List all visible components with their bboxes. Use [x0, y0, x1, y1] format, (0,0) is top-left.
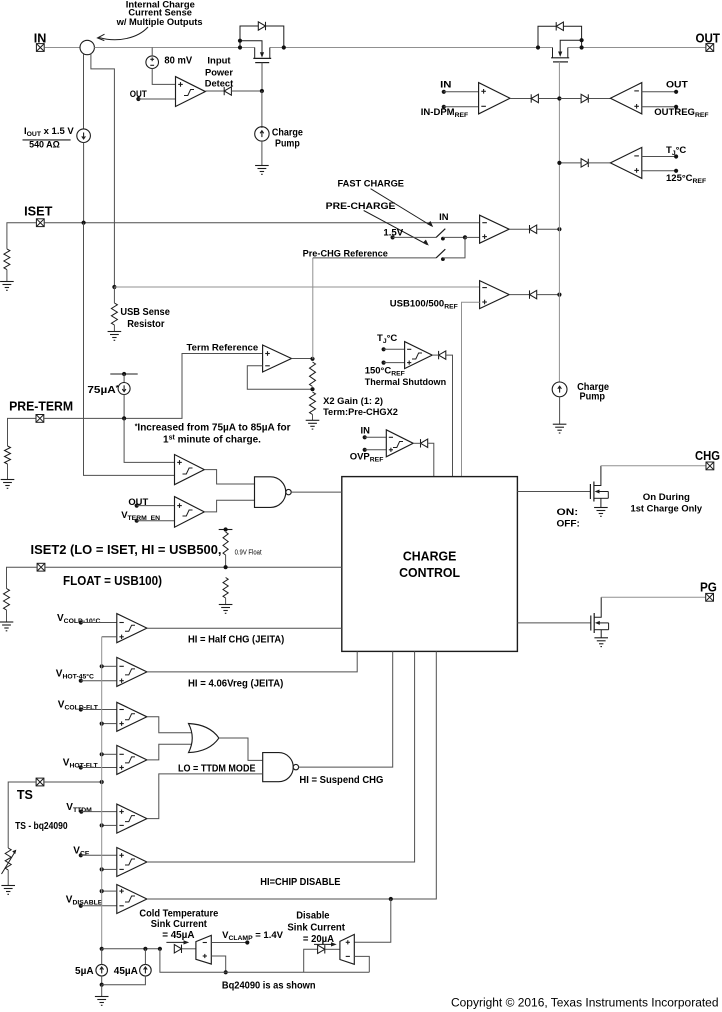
diode D12: [174, 945, 181, 953]
wire left rail to U10 minus: [84, 223, 175, 476]
wire Q4 drain to PG pin: [601, 596, 705, 598]
wire VTTDM to U16 plus: [81, 811, 117, 813]
svg-text:5µA: 5µA: [75, 966, 94, 977]
wire D8 to U7: [588, 162, 610, 164]
gate O1 OR: [189, 724, 219, 753]
svg-text:CHG: CHG: [695, 449, 720, 463]
diode D3: [224, 87, 231, 95]
node dot VCLAMP: [245, 940, 249, 944]
ground Q4: [594, 638, 608, 647]
wire OUT to U1 minus: [138, 98, 175, 100]
supply bar 0.9V: [219, 529, 233, 531]
ground PRE-TERM: [1, 480, 15, 489]
ground Q3: [594, 508, 608, 517]
wire U4 out: [509, 294, 529, 296]
svg-text:HI = Half CHG (JEITA): HI = Half CHG (JEITA): [188, 635, 284, 646]
svg-text:TS: TS: [17, 788, 33, 802]
wire U17 out riser to box: [147, 651, 415, 862]
comparator U4: [480, 281, 510, 309]
source 45uA: [140, 964, 152, 976]
wire VHOT45 to U13 plus: [81, 680, 117, 682]
wire TJ to U8: [384, 348, 405, 350]
svg-text:Power: Power: [205, 67, 233, 78]
wire D9 riser to box: [446, 355, 453, 477]
svg-text:On During: On During: [643, 491, 690, 502]
switch pre-charge contact: [441, 257, 445, 261]
junction dot divider mid: [310, 387, 314, 391]
ground charge pump right: [553, 424, 567, 433]
wire PRE-TERM node to U10 plus: [124, 418, 174, 462]
junction dot TS U13: [100, 664, 104, 668]
junction dot PRE-TERM/75uA: [122, 416, 126, 420]
transistor Q2 drain leg: [567, 48, 569, 58]
wire 5uA bottom: [101, 976, 103, 985]
svg-text:Term Reference: Term Reference: [187, 341, 259, 352]
wire OUT to U11 plus: [137, 505, 175, 507]
wire Q2 to OUT pin: [568, 47, 706, 49]
node dot INDPM wire: [442, 105, 446, 109]
svg-text:Charge: Charge: [272, 127, 303, 138]
resistor X2 bottom: [310, 392, 316, 415]
wire D5 to bus: [537, 294, 560, 296]
wire TS bus to U12 plus: [102, 636, 117, 638]
transistor Q1 channel: [253, 57, 271, 59]
diode D10: [421, 439, 428, 447]
wire USB sense vertical: [113, 287, 115, 303]
junction dot TS wire: [100, 780, 104, 784]
svg-text:FAST CHARGE: FAST CHARGE: [338, 179, 405, 189]
junction dot gnd node: [100, 983, 104, 987]
svg-text:PRE-TERM: PRE-TERM: [9, 400, 73, 414]
wire PRE-TERM pin to resistor: [8, 418, 36, 446]
wire D7 to U6: [588, 98, 610, 100]
node dot 125C wire: [674, 169, 678, 173]
comparator U16 VTTDM: [117, 804, 147, 833]
op-amp U2 term reference: [263, 345, 292, 372]
svg-text:*Increased from 75µA to 85µA f: *Increased from 75µA to 85µA for: [135, 423, 291, 434]
wire N1 out to box: [291, 491, 342, 493]
svg-text:OFF:: OFF:: [557, 517, 580, 528]
wire supply bar to 75uA: [123, 374, 125, 383]
node dot 1.5V: [391, 235, 395, 239]
wire VTERMEN to U11 minus: [137, 520, 175, 522]
svg-text:w/ Multiple Outputs: w/ Multiple Outputs: [116, 17, 203, 27]
comparator U9 OVP: [386, 430, 413, 457]
wire U20 plus loop: [211, 956, 225, 972]
junction dot USB sense node: [112, 285, 116, 289]
ground ISET2: [0, 622, 13, 631]
wire VCOLD10 to U12: [81, 622, 117, 624]
wire U9 out to D10: [413, 442, 420, 444]
wire IN to U9: [365, 436, 387, 438]
diode D7: [581, 94, 588, 102]
node dot TJ thermal: [382, 347, 386, 351]
wire USB100/500REF riser: [462, 302, 480, 476]
wire VCE to U17 plus: [81, 854, 117, 856]
comparator U13 VHOT-45C: [117, 657, 147, 686]
svg-text:1st minute of charge.: 1st minute of charge.: [163, 435, 261, 446]
wire TS bus vertical: [101, 637, 103, 949]
resistor 0.9V top: [223, 532, 228, 555]
wire U12 out to box: [147, 627, 342, 629]
wire bias node rail: [102, 948, 160, 950]
wire divider to ground: [312, 415, 314, 421]
svg-text:IN: IN: [361, 425, 371, 436]
transistor Q1 body tap with arrow: [240, 41, 262, 53]
comparator U14 VCOLD-FLT: [117, 702, 147, 731]
wire pre-chg reference riser: [312, 258, 314, 359]
wire D12 to U20: [182, 948, 196, 950]
svg-text:HI = Suspend CHG: HI = Suspend CHG: [299, 775, 383, 786]
svg-text:TS - bq24090: TS - bq24090: [15, 821, 68, 832]
wire IOUT source to ISET rail: [83, 143, 85, 223]
transistor Q1 source leg: [254, 48, 256, 59]
junction dot Q1 tap: [238, 39, 242, 43]
wire TS pin to bus: [44, 781, 101, 783]
junction dot 0.9V: [224, 565, 228, 569]
svg-text:Sink Current: Sink Current: [287, 923, 345, 934]
wire U11 out to N1: [204, 500, 254, 512]
wire U15 out to OR: [147, 744, 194, 760]
source V 80mV: [146, 56, 159, 69]
diode D2 bypass loop: [538, 26, 582, 47]
wire U14 out to OR: [147, 717, 194, 733]
svg-text:1st Charge Only: 1st Charge Only: [631, 502, 703, 513]
junction dot bus usb: [557, 293, 561, 297]
node dot OUT U11: [135, 504, 139, 508]
wire 0.9V to ground: [225, 598, 227, 605]
wire pre-chg switch up to plus node: [443, 237, 465, 258]
wire TS bus to U17 minus: [102, 868, 117, 870]
svg-text:X2 Gain (1: 2): X2 Gain (1: 2): [323, 395, 383, 406]
wire box to Q4 gate: [517, 622, 590, 624]
wire TS bus to U14 plus: [102, 723, 117, 725]
wire U3 out: [509, 228, 529, 230]
svg-text:HI=CHIP DISABLE: HI=CHIP DISABLE: [260, 877, 340, 888]
comparator U11 term enable: [175, 497, 205, 528]
svg-text:80 mV: 80 mV: [164, 55, 192, 66]
diode D6: [531, 94, 538, 102]
junction dot Q1 right rail: [282, 45, 286, 49]
wire D10 riser to box: [428, 443, 434, 476]
arrow pre charge: [364, 211, 427, 245]
pin PRE-TERM: [36, 415, 44, 423]
junction dot bus tj: [557, 161, 561, 165]
wire sense node to USB-sense vertical: [91, 53, 115, 287]
svg-text:ON:: ON:: [557, 506, 579, 517]
svg-text:Copyright © 2016, Texas Instru: Copyright © 2016, Texas Instruments Inco…: [451, 996, 719, 1010]
junction dot Q2 right rail: [580, 45, 584, 49]
wire U1 out to D3: [205, 90, 224, 92]
wire 5uA top: [101, 949, 103, 965]
ground ISET: [0, 282, 14, 291]
node dot IN ovp: [363, 435, 367, 439]
node dot VTERMEN: [135, 519, 139, 523]
wire 80mV to rail: [151, 48, 153, 56]
svg-text:TJ°C: TJ°C: [666, 145, 686, 157]
wire 0.9V mid: [225, 555, 227, 567]
wire bus to D8: [559, 162, 581, 164]
wire U18 out riser to box: [147, 651, 436, 899]
wire box to Q3 gate: [517, 491, 590, 493]
svg-text:ISET: ISET: [24, 205, 53, 219]
diode D2: [556, 22, 563, 30]
svg-text:Detect: Detect: [205, 78, 233, 89]
svg-text:Current Sense: Current Sense: [128, 8, 192, 18]
junction dot TS U18: [100, 889, 104, 893]
wire U6 top input: [642, 91, 676, 93]
svg-text:= 45µA: = 45µA: [162, 930, 194, 941]
leader arrow to current-sense node: [99, 27, 148, 40]
pin OUT: [706, 44, 714, 52]
wire VDISABLE to U18 minus: [81, 905, 117, 907]
wire N2 out riser to box: [299, 651, 393, 767]
node dot 150C: [382, 361, 386, 365]
node dot OUTREG wire: [674, 105, 678, 109]
svg-text:Disable: Disable: [296, 911, 330, 922]
svg-text:ISET2 (LO = ISET, HI = USB500,: ISET2 (LO = ISET, HI = USB500,: [31, 543, 222, 557]
node dot VTTDM: [79, 810, 83, 814]
wire 75uA to PRE-TERM node: [123, 395, 125, 419]
junction dot tap down: [158, 947, 162, 951]
wire U2 feedback: [247, 366, 312, 389]
wire VCOLDFLT to U14: [81, 709, 117, 711]
source charge pump right: [552, 382, 567, 397]
junction dot TS U17: [100, 867, 104, 871]
svg-text:Input: Input: [207, 54, 230, 65]
junction dot bus dpm: [557, 96, 561, 100]
svg-text:OUT: OUT: [666, 79, 688, 90]
ground USB sense: [108, 332, 122, 341]
op-amp U1 input power detect: [176, 77, 206, 107]
source 75uA: [118, 383, 130, 395]
transistor Q2 gate bar: [553, 61, 568, 63]
pin IN: [36, 44, 44, 52]
resistor 0.9V bottom: [223, 578, 228, 599]
svg-text:Term:Pre-CHGX2: Term:Pre-CHGX2: [323, 406, 398, 417]
gate N1 NAND: [255, 477, 286, 508]
transistor Q4 PG nmos: [590, 616, 592, 631]
svg-text:PG: PG: [700, 581, 717, 595]
wire gate node down to charge pump: [261, 91, 263, 128]
junction dot TS U14: [100, 722, 104, 726]
wire plus node to U3: [465, 236, 480, 238]
resistor R-PRETERM: [5, 446, 11, 464]
wire R-ISET to ground: [6, 270, 8, 282]
arrow 45uA current: [166, 941, 186, 943]
junction dot TS U16: [100, 823, 104, 827]
wire TS bus to U16 minus: [102, 824, 117, 826]
wire TS bus to U15 minus: [102, 753, 117, 755]
junction dot bus fast: [557, 227, 561, 231]
pin CHG: [706, 462, 714, 470]
transistor Q1 gate bar: [255, 62, 269, 64]
ground 0.9V: [219, 605, 233, 614]
wire Q3 drain to CHG pin: [601, 465, 706, 467]
comparator U8 thermal shutdown: [405, 342, 433, 369]
svg-text:75µA*: 75µA*: [87, 385, 119, 396]
svg-text:FLOAT = USB100): FLOAT = USB100): [63, 574, 162, 588]
node dot OUT wire: [136, 97, 140, 101]
wire PRE-TERM to term reference: [44, 354, 262, 419]
wire gate bus vertical: [558, 62, 560, 382]
node dot OUT wire U6: [674, 90, 678, 94]
junction dot ISET/IOUT: [82, 221, 86, 225]
wire D11 to U19: [325, 948, 340, 950]
switch fast charge blade: [436, 229, 445, 238]
wire 45uA bottom: [102, 976, 146, 985]
junction dot gate node: [260, 89, 264, 93]
junction dot disable branch: [389, 897, 393, 901]
wire 1.5V to switch: [393, 236, 437, 238]
wire OVPREF to U9: [365, 449, 387, 451]
comparator U5 IN-DPM: [479, 83, 510, 114]
comparator U6 OUTREG: [610, 83, 641, 114]
comparator U18 VDISABLE: [117, 885, 147, 914]
junction dot divider top: [310, 357, 314, 361]
svg-text:CHARGE: CHARGE: [403, 548, 457, 563]
svg-text:PRE-CHARGE: PRE-CHARGE: [326, 201, 396, 211]
resistor R-ISET: [4, 249, 10, 270]
ground X2 divider: [306, 420, 320, 429]
ground TS: [1, 886, 15, 895]
resistor X2 top: [310, 362, 316, 387]
ground bias: [95, 997, 109, 1006]
wire U8 out to D9: [432, 354, 438, 356]
node dot VHOT45: [79, 679, 83, 683]
wire 150C to U8: [384, 362, 405, 364]
arrow 20uA current: [314, 943, 334, 945]
svg-text:540 AΩ: 540 AΩ: [29, 138, 60, 149]
wire TS pin left to thermistor: [8, 782, 36, 848]
pin TS: [36, 778, 44, 786]
wire TS bus to U18 plus: [102, 890, 117, 892]
wire charge pump right to ground: [559, 397, 561, 424]
wire U13 out to box: [147, 651, 357, 672]
svg-text:Pump: Pump: [580, 392, 606, 403]
wire VHOTFLT to U15 plus: [81, 767, 117, 769]
node dot VCE: [79, 853, 83, 857]
junction dot Q2 tap: [580, 38, 584, 42]
wire sense node to Q1: [94, 47, 254, 49]
wire U7 top input: [642, 156, 676, 158]
svg-text:TJ°C: TJ°C: [377, 333, 397, 345]
svg-text:IN: IN: [440, 79, 452, 90]
comparator U19 disable clamp: [340, 934, 354, 964]
source 5uA: [96, 964, 108, 976]
wire bus to D7: [559, 98, 581, 100]
junction dot U20 plus: [224, 970, 228, 974]
junction dot TS U15: [100, 752, 104, 756]
wire USB100/500 net: [114, 286, 479, 288]
svg-text:IN: IN: [439, 211, 449, 222]
wire ISET2 pin left: [7, 567, 37, 588]
node dot VCOLDFLT: [79, 707, 83, 711]
gate N2 NAND: [263, 753, 294, 782]
svg-text:= 20µA: = 20µA: [303, 934, 334, 945]
block CHARGE CONTROL: [342, 477, 518, 652]
node dot TJ wire: [674, 154, 678, 158]
wire gnd stem: [101, 985, 103, 997]
junction dot U3 plus node: [463, 235, 467, 239]
wire IN to U5 plus: [444, 91, 479, 93]
wire U2 out to divider: [292, 358, 313, 360]
wire O1 out to N2: [219, 738, 263, 760]
node dot VHOTFLT: [79, 765, 83, 769]
wire D6 to bus: [538, 98, 559, 100]
wire ISET2 to box: [45, 566, 342, 568]
svg-text:HI = 4.06Vreg (JEITA): HI = 4.06Vreg (JEITA): [188, 679, 283, 690]
diode D1 bypass loop: [240, 26, 284, 48]
junction dot TS bottom: [100, 947, 104, 951]
wire INDPM to U5 minus: [444, 106, 479, 108]
wire bottom feedback rail: [160, 949, 369, 973]
diode D11: [318, 945, 325, 953]
switch pre-charge blade: [436, 249, 445, 258]
svg-text:Thermal Shutdown: Thermal Shutdown: [365, 376, 447, 387]
svg-text:45µA: 45µA: [114, 966, 138, 977]
wire ISET rail: [45, 222, 480, 224]
wire 45uA top: [144, 949, 146, 965]
wire D3 to gate node: [231, 90, 262, 92]
diode D9: [439, 351, 446, 359]
transistor Q3 CHG nmos: [589, 484, 591, 499]
wire disable branch to U19: [354, 899, 391, 942]
pin ISET: [36, 219, 44, 227]
pin PG: [706, 593, 714, 601]
resistor USB sense: [111, 303, 117, 325]
wire R-PRETERM to ground: [7, 464, 9, 480]
svg-text:0.9V Float: 0.9V Float: [235, 548, 262, 557]
wire IN rail to sense node: [45, 47, 80, 49]
diode D8: [581, 159, 588, 167]
junction dot Q1 left rail: [238, 45, 242, 49]
wire U20 minus to VCLAMP: [211, 942, 247, 944]
comparator U10 pre-term: [175, 455, 205, 485]
svg-text:Resistor: Resistor: [127, 319, 164, 330]
node dot OVPREF: [363, 448, 367, 452]
wire Q1 gate down to detect node: [261, 63, 263, 91]
node dot VDISABLE: [79, 904, 83, 908]
comparator U7 TJ125: [610, 147, 641, 178]
comparator U12 VCOLD-10C: [117, 614, 147, 643]
wire sense to IOUT source: [83, 54, 85, 129]
transistor Q2 body tap with arrow: [560, 40, 581, 52]
junction dot 45uA top: [143, 947, 147, 951]
wire 80mV to U1 plus: [152, 69, 175, 85]
transistor Q2 source leg: [552, 48, 554, 58]
wire riser to D11: [304, 949, 318, 972]
source IOUT: [77, 129, 91, 143]
wire charge pump to ground: [261, 141, 263, 165]
comparator U15 VHOT-FLT: [117, 745, 147, 774]
transistor Q1 drain leg: [269, 48, 271, 59]
comparator U20 cold clamp: [196, 935, 211, 964]
wire U7 bottom input: [642, 170, 676, 172]
ground charge pump left: [255, 166, 269, 175]
comparator U3: [480, 215, 510, 243]
wire USB resistor to ground: [113, 325, 115, 332]
wire thermistor to ground: [7, 870, 9, 886]
svg-text:Pre-CHG Reference: Pre-CHG Reference: [303, 249, 388, 259]
current sense node circle: [80, 40, 94, 54]
wire U16 out to N2: [147, 774, 263, 819]
diode D4: [530, 225, 537, 233]
diode D5: [530, 290, 537, 298]
svg-text:Pump: Pump: [275, 139, 300, 150]
pin ISET2: [37, 563, 45, 571]
svg-text:USB Sense: USB Sense: [120, 307, 170, 318]
